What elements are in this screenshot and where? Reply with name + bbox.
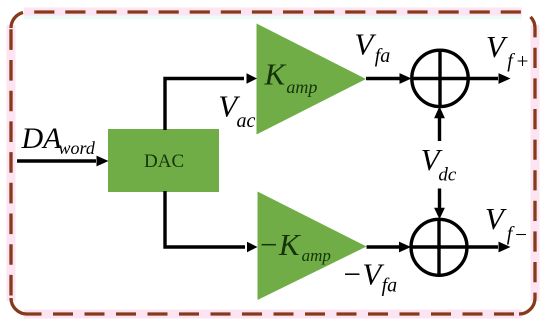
svg-text:amp: amp — [286, 77, 317, 97]
svg-text:dc: dc — [438, 164, 457, 185]
svg-text:−: − — [514, 223, 528, 247]
svg-text:word: word — [59, 138, 96, 158]
svg-text:V: V — [485, 201, 507, 236]
svg-text:−V: −V — [342, 257, 385, 292]
svg-text:K: K — [264, 56, 288, 91]
svg-text:amp: amp — [302, 246, 331, 265]
svg-text:V: V — [354, 26, 376, 61]
svg-text:DA: DA — [21, 122, 63, 155]
svg-text:fa: fa — [382, 275, 398, 297]
svg-text:−K: −K — [258, 227, 302, 262]
svg-text:V: V — [486, 29, 508, 64]
svg-text:DAC: DAC — [144, 151, 184, 172]
svg-text:fa: fa — [375, 45, 391, 67]
svg-text:ac: ac — [237, 110, 256, 132]
svg-text:+: + — [515, 49, 529, 73]
